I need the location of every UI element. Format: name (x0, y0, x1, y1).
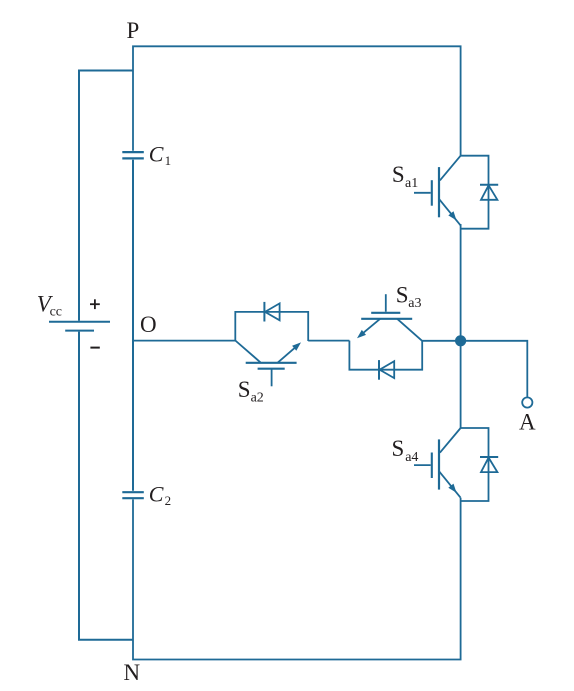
label + (90, 299, 100, 309)
diode D1 (461, 156, 499, 229)
svg-text:S: S (392, 436, 405, 461)
capacitor C1 (122, 152, 144, 158)
wire Sa3 to node (422, 340, 460, 342)
svg-text:a4: a4 (405, 450, 418, 465)
svg-text:a1: a1 (405, 176, 418, 191)
wire battery bottom connection (79, 332, 133, 640)
transistor Sa4 (IGBT) (414, 428, 461, 498)
terminal A (open circle) (522, 397, 532, 407)
wire node to Sa4 (460, 341, 462, 428)
label Vcc (37, 292, 62, 320)
transistor Sa2 (IGBT) (235, 341, 301, 387)
label C1 (149, 141, 171, 168)
diode D4 (461, 428, 499, 501)
junction node (filled) (455, 335, 466, 346)
wire Sa1 emitter to node (460, 224, 462, 341)
svg-text:S: S (392, 162, 405, 187)
svg-text:S: S (238, 377, 251, 402)
label Sa4 (392, 436, 419, 465)
wire O to Sa2 (133, 340, 235, 342)
svg-text:A: A (519, 409, 536, 434)
svg-text:2: 2 (165, 493, 172, 508)
wire top rail P (133, 46, 461, 155)
label Sa2 (238, 377, 264, 406)
wire left bus C1 to C2 through O (132, 160, 134, 491)
transistor Sa3 (IGBT) (357, 294, 422, 341)
svg-text:C: C (149, 481, 164, 506)
diode D2 (235, 302, 308, 341)
label Sa3 (396, 283, 422, 311)
wire node to terminal A (461, 341, 528, 397)
svg-text:1: 1 (165, 153, 172, 168)
label C2 (149, 481, 171, 508)
svg-text:P: P (127, 18, 140, 43)
capacitor C2 (122, 492, 144, 498)
svg-text:S: S (396, 283, 409, 308)
wire Sa2 to Sa3 (308, 340, 349, 342)
label - (90, 347, 99, 349)
svg-text:a2: a2 (251, 391, 264, 406)
label Sa1 (392, 162, 418, 191)
wire bottom rail N (133, 498, 461, 660)
svg-text:a3: a3 (408, 296, 421, 311)
svg-text:O: O (140, 312, 157, 337)
battery Vcc plates (49, 322, 110, 331)
wire battery top connection (79, 71, 133, 321)
svg-text:N: N (124, 660, 141, 685)
svg-text:C: C (149, 141, 164, 166)
svg-text:cc: cc (50, 305, 62, 320)
transistor Sa1 (IGBT) (414, 156, 461, 226)
diode D3 (349, 341, 422, 380)
